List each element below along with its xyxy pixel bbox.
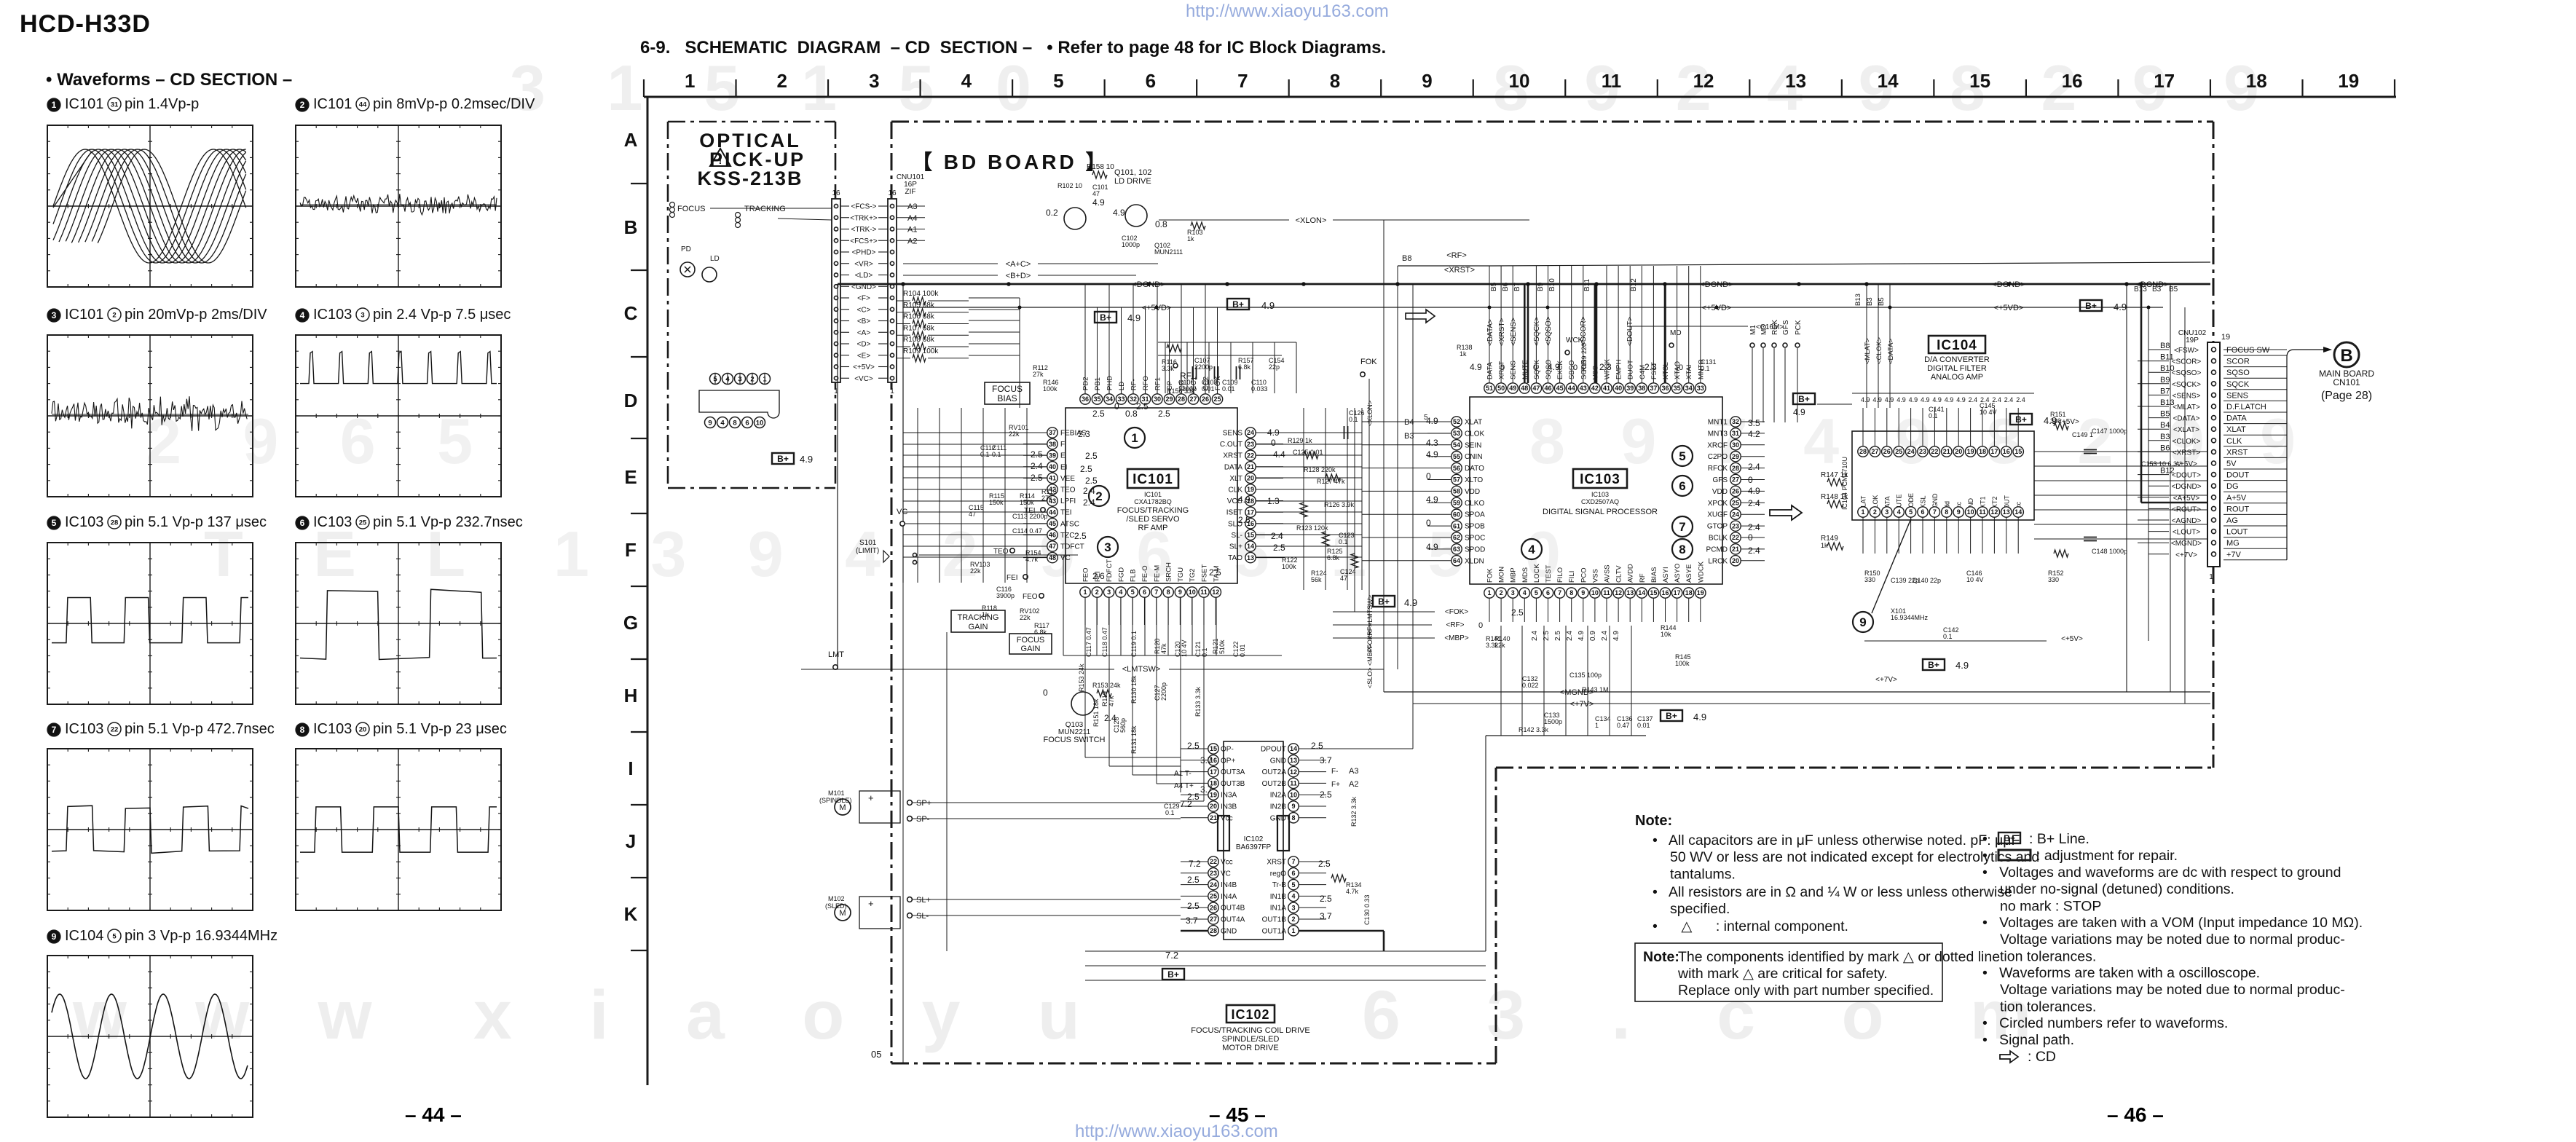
svg-text:8: 8 bbox=[1291, 814, 1295, 822]
svg-text:14: 14 bbox=[2014, 508, 2022, 516]
svg-text:(LIMIT): (LIMIT) bbox=[856, 547, 879, 555]
svg-text:A2: A2 bbox=[1349, 780, 1358, 789]
svg-text:31: 31 bbox=[1732, 430, 1739, 437]
svg-text:<ROUT>: <ROUT> bbox=[2172, 505, 2201, 513]
svg-text:2: 2 bbox=[1873, 508, 1877, 516]
svg-text:A+5V: A+5V bbox=[2226, 494, 2247, 503]
svg-text:11: 11 bbox=[1603, 589, 1610, 596]
svg-text:RF AMP: RF AMP bbox=[1138, 524, 1168, 532]
svg-text:8: 8 bbox=[733, 420, 736, 428]
svg-text:IC102: IC102 bbox=[1231, 1007, 1269, 1022]
svg-text:2.5: 2.5 bbox=[1187, 741, 1200, 751]
svg-text:S101: S101 bbox=[859, 539, 877, 547]
svg-text:: CD: : CD bbox=[2028, 1049, 2056, 1065]
svg-text:4.9: 4.9 bbox=[1872, 396, 1882, 403]
svg-text:SEIN: SEIN bbox=[1465, 441, 1481, 449]
svg-text:1: 1 bbox=[1291, 927, 1295, 934]
svg-text:4.9: 4.9 bbox=[1693, 712, 1706, 722]
svg-text:43: 43 bbox=[1580, 385, 1587, 392]
svg-text:0: 0 bbox=[1426, 518, 1431, 528]
svg-text:4.9: 4.9 bbox=[1113, 208, 1125, 218]
svg-text:3: 3 bbox=[1104, 540, 1111, 554]
svg-text:34: 34 bbox=[1685, 385, 1693, 392]
svg-text:1: 1 bbox=[1487, 589, 1491, 596]
svg-text:2: 2 bbox=[300, 100, 305, 110]
svg-text:2.5: 2.5 bbox=[1187, 875, 1200, 885]
svg-text:5: 5 bbox=[1291, 881, 1295, 889]
svg-text:<AGND>: <AGND> bbox=[2172, 517, 2202, 525]
svg-text:C130 0.33: C130 0.33 bbox=[1363, 894, 1371, 925]
svg-text:TG2: TG2 bbox=[1189, 569, 1197, 582]
svg-text:<FSW>: <FSW> bbox=[2174, 347, 2199, 355]
svg-text:26: 26 bbox=[1202, 395, 1209, 403]
svg-text:19: 19 bbox=[2221, 333, 2230, 342]
svg-text:AG: AG bbox=[2226, 516, 2238, 525]
svg-text:MNT3: MNT3 bbox=[1708, 430, 1728, 438]
svg-text:LD: LD bbox=[1118, 382, 1126, 390]
svg-text:2: 2 bbox=[1095, 489, 1102, 503]
svg-text:IC101: IC101 bbox=[1133, 472, 1173, 487]
svg-text:1: 1 bbox=[2209, 573, 2213, 581]
svg-text:6: 6 bbox=[1143, 588, 1146, 596]
svg-text:7: 7 bbox=[1154, 588, 1158, 596]
svg-text:4: 4 bbox=[1897, 508, 1901, 516]
svg-text:regO: regO bbox=[1270, 870, 1286, 878]
svg-text:2.5: 2.5 bbox=[1318, 859, 1331, 869]
svg-text:<XRST>: <XRST> bbox=[1498, 318, 1506, 346]
svg-text:VC: VC bbox=[897, 508, 907, 516]
svg-text:10: 10 bbox=[1189, 588, 1196, 596]
svg-text:GND: GND bbox=[1221, 927, 1237, 935]
svg-text:4: 4 bbox=[720, 420, 725, 428]
svg-text:34: 34 bbox=[1106, 395, 1113, 403]
svg-text:4.7k: 4.7k bbox=[1346, 888, 1359, 895]
svg-text:0.1: 0.1 bbox=[1943, 633, 1953, 640]
svg-text:23: 23 bbox=[1210, 870, 1217, 877]
svg-text:53: 53 bbox=[1453, 430, 1460, 437]
svg-text:(SPINDLE): (SPINDLE) bbox=[819, 797, 852, 804]
svg-text:<D>: <D> bbox=[857, 341, 871, 349]
svg-text:OP-: OP- bbox=[1221, 746, 1234, 754]
svg-text:SQCK: SQCK bbox=[2226, 380, 2250, 389]
svg-text:R109 100k: R109 100k bbox=[903, 347, 939, 355]
svg-text:7: 7 bbox=[1933, 508, 1937, 516]
svg-text:28: 28 bbox=[1178, 395, 1185, 403]
svg-text:MON: MON bbox=[1498, 567, 1506, 583]
svg-text:30: 30 bbox=[1732, 441, 1739, 449]
svg-text:R131 18k: R131 18k bbox=[1130, 725, 1138, 754]
svg-text:IC104: IC104 bbox=[65, 928, 103, 944]
svg-text:BCLK: BCLK bbox=[1709, 535, 1728, 543]
svg-text:24: 24 bbox=[1732, 511, 1739, 518]
svg-text:B12: B12 bbox=[2160, 467, 2175, 476]
svg-text:•: • bbox=[1982, 848, 1988, 864]
svg-text:• All resistors are in Ω and: • All resistors are in Ω and ¼ W or less… bbox=[1653, 884, 2012, 900]
svg-text:13: 13 bbox=[1247, 554, 1254, 562]
svg-text:(Page 28): (Page 28) bbox=[2321, 390, 2372, 402]
svg-text:0: 0 bbox=[1679, 363, 1683, 372]
svg-text:330: 330 bbox=[1864, 576, 1875, 583]
svg-text:F: F bbox=[1060, 441, 1065, 449]
svg-text:2.3: 2.3 bbox=[1599, 362, 1612, 372]
svg-text:4.9: 4.9 bbox=[1092, 197, 1105, 208]
svg-text:OUT3B: OUT3B bbox=[1221, 780, 1245, 788]
svg-text:IC101: IC101 bbox=[313, 96, 352, 112]
svg-text:0.01: 0.01 bbox=[1637, 722, 1650, 729]
svg-text:14: 14 bbox=[1290, 745, 1297, 752]
svg-text:<A+C>: <A+C> bbox=[1006, 260, 1031, 269]
svg-text:9: 9 bbox=[708, 420, 712, 428]
svg-text:35: 35 bbox=[1674, 385, 1681, 392]
svg-text:6: 6 bbox=[1921, 508, 1924, 516]
svg-text:0.033: 0.033 bbox=[1251, 385, 1268, 393]
svg-text:3900p: 3900p bbox=[996, 592, 1015, 599]
svg-text:LOCK: LOCK bbox=[1533, 563, 1541, 583]
svg-text:<+5VD>: <+5VD> bbox=[1994, 304, 2024, 312]
svg-text:26: 26 bbox=[1210, 904, 1217, 911]
svg-text:<+5V>: <+5V> bbox=[2061, 635, 2083, 643]
svg-text:10 4V: 10 4V bbox=[1980, 409, 1997, 416]
svg-text:<FOK>: <FOK> bbox=[1445, 608, 1468, 616]
svg-text:<VC>: <VC> bbox=[854, 375, 873, 383]
svg-text:IC103: IC103 bbox=[313, 721, 352, 737]
svg-text:2.5: 2.5 bbox=[1031, 449, 1043, 460]
svg-text:12: 12 bbox=[1990, 508, 1998, 516]
svg-text:TRACKING: TRACKING bbox=[744, 205, 786, 213]
svg-text:8: 8 bbox=[1330, 70, 1340, 92]
svg-text:FE-M: FE-M bbox=[1153, 565, 1161, 582]
svg-text:FEO: FEO bbox=[1082, 567, 1090, 582]
svg-text:4.9: 4.9 bbox=[1748, 486, 1760, 496]
svg-text:R139 220: R139 220 bbox=[1580, 343, 1588, 371]
svg-text:13: 13 bbox=[1290, 757, 1297, 764]
svg-text:B5: B5 bbox=[1878, 297, 1886, 306]
svg-text:<DATA>: <DATA> bbox=[2173, 415, 2200, 423]
svg-text:DUOT: DUOT bbox=[1627, 360, 1635, 379]
svg-text:PD: PD bbox=[681, 245, 691, 253]
svg-text:11: 11 bbox=[1200, 588, 1208, 596]
svg-text:7: 7 bbox=[1679, 520, 1685, 534]
svg-text:ROUT: ROUT bbox=[2226, 505, 2249, 513]
svg-text:17: 17 bbox=[1210, 768, 1217, 776]
svg-text:VDD: VDD bbox=[1712, 488, 1728, 496]
svg-text:1: 1 bbox=[1595, 722, 1599, 729]
svg-text:11: 11 bbox=[1979, 508, 1986, 516]
svg-text:pin 5.1 Vp-p 23 μsec: pin 5.1 Vp-p 23 μsec bbox=[373, 721, 507, 737]
svg-text:7: 7 bbox=[1291, 858, 1295, 865]
svg-text:52: 52 bbox=[1453, 418, 1460, 425]
svg-text:ASYE: ASYE bbox=[1685, 564, 1693, 583]
svg-text:<+7V>: <+7V> bbox=[2175, 551, 2197, 559]
svg-text:OUT1A: OUT1A bbox=[1262, 927, 1287, 935]
svg-text:CLKO: CLKO bbox=[1465, 500, 1484, 508]
svg-text:XROF: XROF bbox=[1707, 441, 1728, 449]
svg-text:3.7: 3.7 bbox=[1186, 915, 1198, 926]
svg-text:IC103: IC103 bbox=[313, 514, 352, 530]
svg-text:56: 56 bbox=[1453, 465, 1460, 472]
svg-text:B+: B+ bbox=[2085, 301, 2097, 311]
svg-text:1k: 1k bbox=[1460, 350, 1467, 358]
svg-text:!: ! bbox=[719, 154, 722, 166]
svg-text:TAO: TAO bbox=[1228, 554, 1242, 562]
svg-text:R156 33k: R156 33k bbox=[1167, 387, 1195, 395]
svg-text:: adjustment for repair.: : adjustment for repair. bbox=[2036, 848, 2178, 864]
svg-text:<E>: <E> bbox=[857, 352, 871, 360]
svg-text:M102: M102 bbox=[828, 895, 845, 902]
svg-text:IC103: IC103 bbox=[65, 721, 103, 737]
svg-text:3: 3 bbox=[1885, 508, 1888, 516]
svg-text:<SQSO>: <SQSO> bbox=[1545, 316, 1553, 346]
svg-text:GTOP: GTOP bbox=[1707, 523, 1728, 531]
svg-text:6: 6 bbox=[1146, 70, 1156, 92]
svg-text:38: 38 bbox=[1638, 385, 1645, 392]
svg-text:<LD>: <LD> bbox=[855, 272, 873, 280]
svg-text:XRST: XRST bbox=[1267, 859, 1286, 867]
svg-text:SPOA: SPOA bbox=[1465, 511, 1485, 519]
svg-text:IC102: IC102 bbox=[1244, 835, 1264, 843]
svg-text:VSS: VSS bbox=[1591, 569, 1599, 583]
svg-text:R132 3.3k: R132 3.3k bbox=[1350, 796, 1358, 827]
svg-text:CLOK: CLOK bbox=[1465, 430, 1485, 438]
svg-text:4.9: 4.9 bbox=[1956, 396, 1966, 403]
svg-text:G: G bbox=[623, 612, 638, 634]
svg-text:+: + bbox=[868, 898, 874, 909]
svg-text:Q101, 102: Q101, 102 bbox=[1114, 168, 1151, 177]
svg-text:BIAS: BIAS bbox=[997, 393, 1017, 403]
svg-text:2.5: 2.5 bbox=[1311, 741, 1323, 751]
svg-text:C117 0.47: C117 0.47 bbox=[1085, 627, 1092, 657]
svg-text:XLAT: XLAT bbox=[2226, 425, 2246, 434]
svg-text:<MGND>: <MGND> bbox=[1560, 688, 1594, 697]
svg-text:16: 16 bbox=[832, 189, 840, 197]
svg-text:FOCUS: FOCUS bbox=[677, 205, 706, 213]
svg-text:F+: F+ bbox=[1331, 781, 1340, 789]
svg-text:R133 3.3k: R133 3.3k bbox=[1194, 686, 1202, 717]
svg-text:17: 17 bbox=[2154, 70, 2175, 92]
svg-text:MDS: MDS bbox=[1521, 567, 1529, 583]
svg-text:45: 45 bbox=[1556, 385, 1564, 392]
svg-text:Voltage variations may be note: Voltage variations may be noted due to n… bbox=[2000, 982, 2345, 998]
svg-text:B+: B+ bbox=[1167, 969, 1179, 980]
svg-text:TGU: TGU bbox=[1177, 567, 1185, 582]
svg-text:SQSO: SQSO bbox=[2226, 369, 2250, 377]
svg-text:39: 39 bbox=[1049, 452, 1056, 459]
svg-text:<MGND>: <MGND> bbox=[2171, 540, 2202, 548]
svg-text:100k: 100k bbox=[1043, 385, 1057, 393]
svg-text:TEO: TEO bbox=[993, 548, 1009, 556]
svg-text:2.5: 2.5 bbox=[1080, 464, 1092, 474]
svg-text:FEO: FEO bbox=[1023, 593, 1038, 601]
svg-text:【 BD BOARD 】: 【 BD BOARD 】 bbox=[912, 151, 1108, 173]
svg-text:pin 2.4 Vp-p 7.5 μsec: pin 2.4 Vp-p 7.5 μsec bbox=[373, 307, 511, 323]
svg-text:7.2: 7.2 bbox=[1189, 859, 1201, 869]
svg-text:41: 41 bbox=[1049, 475, 1056, 482]
svg-text:49: 49 bbox=[1509, 385, 1516, 392]
svg-text:ANALOG AMP: ANALOG AMP bbox=[1931, 373, 1983, 382]
svg-text:22: 22 bbox=[1210, 858, 1217, 865]
svg-text:4.9: 4.9 bbox=[1261, 300, 1275, 311]
svg-text:63: 63 bbox=[1453, 546, 1460, 553]
svg-text:7: 7 bbox=[52, 725, 57, 735]
svg-text:22k: 22k bbox=[1494, 642, 1505, 649]
svg-text:9: 9 bbox=[52, 932, 57, 942]
svg-text:D.F.LATCH: D.F.LATCH bbox=[2226, 403, 2266, 411]
svg-text:Tr-B: Tr-B bbox=[1272, 881, 1286, 889]
svg-text:C.OUT: C.OUT bbox=[1220, 441, 1242, 449]
svg-text:2.4: 2.4 bbox=[1969, 396, 1978, 403]
svg-text:• All capacitors are in μF u: • All capacitors are in μF unless otherw… bbox=[1653, 832, 2020, 848]
svg-text:2.4: 2.4 bbox=[1748, 498, 1760, 508]
svg-text:<XRST>: <XRST> bbox=[1444, 266, 1475, 275]
svg-text:2.5: 2.5 bbox=[1187, 901, 1200, 911]
svg-text:tion tolerances.: tion tolerances. bbox=[2000, 999, 2096, 1015]
svg-text:26: 26 bbox=[1883, 448, 1891, 455]
svg-text:0.1: 0.1 bbox=[1339, 538, 1348, 546]
svg-text:FDFCT: FDFCT bbox=[1106, 559, 1114, 582]
svg-text:LOUT: LOUT bbox=[2226, 528, 2248, 537]
svg-text:B11: B11 bbox=[2160, 353, 2174, 362]
svg-text:3: 3 bbox=[869, 70, 879, 92]
svg-text:3.7: 3.7 bbox=[1200, 755, 1213, 765]
svg-text:• Waveforms are taken with a: • Waveforms are taken with a oscilloscop… bbox=[1982, 965, 2260, 981]
svg-text:A2: A2 bbox=[907, 237, 917, 245]
svg-text:44: 44 bbox=[1049, 508, 1056, 516]
svg-text:FSET: FSET bbox=[1201, 564, 1209, 582]
svg-text:4.9: 4.9 bbox=[1932, 396, 1942, 403]
svg-text:19: 19 bbox=[1247, 486, 1254, 493]
svg-text:6: 6 bbox=[1546, 589, 1550, 596]
svg-text:5: 5 bbox=[52, 518, 57, 528]
svg-text:ASYO: ASYO bbox=[1674, 564, 1682, 583]
svg-text:FGD: FGD bbox=[1117, 567, 1125, 582]
svg-text:2: 2 bbox=[1095, 588, 1099, 596]
svg-text:13: 13 bbox=[2003, 508, 2010, 516]
svg-text:XTAI: XTAI bbox=[1685, 365, 1693, 379]
svg-text:22: 22 bbox=[1247, 452, 1254, 459]
svg-text:R123 120k: R123 120k bbox=[1296, 524, 1328, 532]
svg-text:R129 1k: R129 1k bbox=[1288, 437, 1312, 444]
svg-text:R151 18k: R151 18k bbox=[1092, 698, 1100, 727]
svg-text:05: 05 bbox=[871, 1049, 881, 1060]
svg-text:32: 32 bbox=[1732, 418, 1739, 425]
svg-text:0.8: 0.8 bbox=[1155, 219, 1167, 229]
svg-text:2: 2 bbox=[1291, 915, 1295, 923]
svg-text:•: • bbox=[1982, 831, 1988, 847]
svg-text:4.9: 4.9 bbox=[1426, 449, 1438, 460]
svg-text:DIGITAL SIGNAL PROCESSOR: DIGITAL SIGNAL PROCESSOR bbox=[1543, 508, 1658, 516]
svg-text:1k: 1k bbox=[982, 611, 989, 618]
svg-text:M: M bbox=[839, 803, 846, 812]
svg-text:1k: 1k bbox=[1821, 542, 1828, 549]
svg-text:1: 1 bbox=[1131, 431, 1138, 445]
svg-text:3.7: 3.7 bbox=[1320, 911, 1332, 921]
svg-text:OP+: OP+ bbox=[1221, 757, 1235, 765]
svg-text:8: 8 bbox=[1679, 543, 1685, 556]
svg-text:PB1: PB1 bbox=[1094, 377, 1102, 390]
svg-text:19: 19 bbox=[1967, 448, 1974, 455]
svg-text:9: 9 bbox=[1422, 70, 1432, 92]
svg-text:PHD: PHD bbox=[1106, 376, 1114, 390]
svg-text:CN101: CN101 bbox=[2333, 377, 2360, 387]
svg-text:TRACKING: TRACKING bbox=[958, 613, 999, 622]
svg-text:TEI: TEI bbox=[1024, 507, 1036, 515]
svg-text:6: 6 bbox=[300, 518, 305, 528]
svg-text:GAIN: GAIN bbox=[969, 623, 988, 631]
svg-text:VEE: VEE bbox=[1060, 475, 1075, 483]
svg-text:2.5: 2.5 bbox=[1085, 476, 1098, 486]
svg-text:FOCUS/TRACKING COIL DRIVE: FOCUS/TRACKING COIL DRIVE bbox=[1191, 1026, 1309, 1035]
svg-text:LRCK: LRCK bbox=[1708, 557, 1728, 565]
svg-text:4.9: 4.9 bbox=[1945, 396, 1954, 403]
svg-text:150k: 150k bbox=[989, 499, 1004, 506]
svg-text:PD2: PD2 bbox=[1082, 377, 1090, 390]
svg-text:DG: DG bbox=[2226, 482, 2239, 491]
svg-text:40: 40 bbox=[1049, 463, 1056, 470]
svg-text:0.1: 0.1 bbox=[1929, 412, 1938, 420]
svg-text:AVDD: AVDD bbox=[1627, 564, 1635, 583]
svg-text:<VR>: <VR> bbox=[854, 260, 873, 268]
svg-text:1: 1 bbox=[1083, 588, 1087, 596]
svg-text:R158 10: R158 10 bbox=[1087, 163, 1114, 171]
svg-text:6: 6 bbox=[1291, 870, 1295, 877]
svg-text:23: 23 bbox=[1919, 448, 1926, 455]
svg-text:<MBP>: <MBP> bbox=[1444, 634, 1469, 642]
svg-text:57: 57 bbox=[1453, 476, 1460, 484]
svg-text:8: 8 bbox=[1167, 588, 1170, 596]
svg-text:• Signal path.: • Signal path. bbox=[1982, 1032, 2074, 1048]
svg-text:4.9: 4.9 bbox=[800, 454, 813, 465]
svg-text:28: 28 bbox=[1859, 448, 1867, 455]
svg-text:<XLON>: <XLON> bbox=[1366, 401, 1374, 426]
svg-text:FOCUS: FOCUS bbox=[992, 384, 1023, 394]
svg-text:LPFI: LPFI bbox=[1060, 497, 1076, 505]
svg-text:LD DRIVE: LD DRIVE bbox=[1114, 177, 1151, 186]
svg-text:0: 0 bbox=[1271, 438, 1276, 448]
svg-text:8: 8 bbox=[1945, 508, 1948, 516]
svg-text:B9: B9 bbox=[2160, 376, 2170, 385]
svg-text:12: 12 bbox=[1290, 768, 1297, 776]
svg-text:0: 0 bbox=[1748, 475, 1753, 485]
svg-text:27: 27 bbox=[1871, 448, 1878, 455]
svg-text:B10: B10 bbox=[1548, 278, 1556, 291]
svg-text:IN3A: IN3A bbox=[1221, 792, 1237, 800]
svg-text:4.9: 4.9 bbox=[1921, 396, 1930, 403]
svg-text:100k: 100k bbox=[1282, 563, 1296, 570]
svg-text:0.1: 0.1 bbox=[1701, 365, 1710, 372]
svg-text:25: 25 bbox=[1210, 893, 1217, 900]
svg-text:<A+5V>: <A+5V> bbox=[2173, 495, 2200, 503]
svg-text:FILO: FILO bbox=[1556, 567, 1564, 583]
svg-text:IC103: IC103 bbox=[1591, 491, 1609, 498]
svg-text:MOTOR DRIVE: MOTOR DRIVE bbox=[1222, 1044, 1278, 1052]
svg-text:<CLOK>: <CLOK> bbox=[2173, 438, 2201, 446]
svg-text:A1 T-: A1 T- bbox=[1174, 770, 1192, 778]
svg-text:B5: B5 bbox=[1490, 282, 1498, 291]
svg-text:FOCUS: FOCUS bbox=[1017, 636, 1045, 645]
svg-text:XUGF: XUGF bbox=[1707, 511, 1728, 519]
svg-text:pin 5.1 Vp-p 137 μsec: pin 5.1 Vp-p 137 μsec bbox=[125, 514, 267, 530]
svg-text:OUT1B: OUT1B bbox=[1262, 916, 1287, 924]
svg-text:B4: B4 bbox=[2160, 421, 2170, 430]
svg-text:36: 36 bbox=[1661, 385, 1669, 392]
svg-text:24: 24 bbox=[1210, 881, 1217, 889]
svg-text:TEST: TEST bbox=[1545, 565, 1553, 583]
svg-text:CNIN: CNIN bbox=[1465, 453, 1482, 461]
svg-text:LMT: LMT bbox=[828, 650, 844, 659]
svg-text:37: 37 bbox=[1049, 429, 1056, 436]
svg-text:XPCK: XPCK bbox=[1708, 500, 1728, 508]
svg-text:C135 100p: C135 100p bbox=[1569, 672, 1602, 679]
